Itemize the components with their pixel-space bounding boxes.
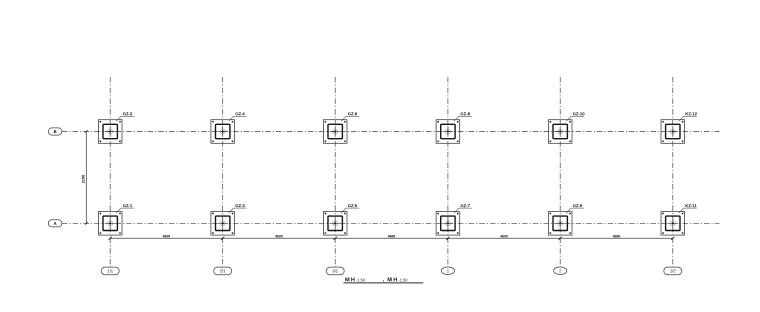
vertical dimension line between rows A and B <box>85 130 88 225</box>
svg-text:KZ-12: KZ-12 <box>685 111 697 116</box>
column footing GZ-2 (row B col 1) at grid intersection <box>98 120 122 144</box>
svg-text:1: 1 <box>447 268 450 273</box>
column footing KZ-12 (row B col 6) at grid intersection <box>661 120 685 144</box>
grid line column 3 (vertical centerline) <box>334 77 336 267</box>
label GZ-1 with leader for footing GZ-1 (row A col 1) <box>116 203 134 213</box>
svg-text:4500: 4500 <box>388 234 396 238</box>
horizontal dimension line under row A <box>109 237 675 240</box>
grid bubble column 1 <box>441 267 454 275</box>
column footing KZ-11 (row A col 6) at grid intersection <box>661 212 685 236</box>
column footing GZ-7 (row A col 4) at grid intersection <box>436 212 460 236</box>
column footing GZ-4 (row B col 2) at grid intersection <box>211 120 235 144</box>
svg-text:2: 2 <box>559 268 562 273</box>
grid line column 4 (vertical centerline) <box>447 77 449 267</box>
label GZ-9 with leader for footing GZ-9 (row A col 5) <box>566 203 584 213</box>
svg-text:3/1: 3/1 <box>332 268 338 273</box>
column footing GZ-3 (row A col 2) at grid intersection <box>211 212 235 236</box>
grid line column 5 (vertical centerline) <box>559 77 561 267</box>
column footing GZ-9 (row A col 5) at grid intersection <box>548 212 572 236</box>
grid bubble column 3/1 <box>326 267 344 275</box>
svg-text:1/1: 1/1 <box>107 268 113 273</box>
svg-text:GZ-3: GZ-3 <box>235 203 245 208</box>
grid bubble column 2 <box>554 267 567 275</box>
grid line row B (horizontal centerline) <box>62 131 720 133</box>
svg-text:1/2: 1/2 <box>670 268 676 273</box>
svg-text:GZ-10: GZ-10 <box>573 111 586 116</box>
svg-text:4500: 4500 <box>163 234 171 238</box>
separator dot <box>383 280 384 281</box>
svg-text:2/1: 2/1 <box>220 268 226 273</box>
grid line column 1 (vertical centerline) <box>109 77 111 267</box>
grid bubble column 2/1 <box>214 267 232 275</box>
svg-text:KZ-11: KZ-11 <box>685 203 697 208</box>
svg-text:2100: 2100 <box>82 175 86 183</box>
label GZ-4 with leader for footing GZ-4 (row B col 2) <box>229 111 247 121</box>
label GZ-5 with leader for footing GZ-5 (row A col 3) <box>341 203 359 213</box>
svg-text:GZ-1: GZ-1 <box>123 203 133 208</box>
label KZ-11 with leader for footing KZ-11 (row A col 6) <box>679 203 698 213</box>
svg-text:GZ-7: GZ-7 <box>460 203 470 208</box>
svg-text:GZ-4: GZ-4 <box>235 111 245 116</box>
label GZ-8 with leader for footing GZ-8 (row B col 4) <box>454 111 472 121</box>
column footing GZ-10 (row B col 5) at grid intersection <box>548 120 572 144</box>
grid bubble row B <box>48 128 62 135</box>
grid bubble column 1/2 <box>664 267 682 275</box>
label GZ-7 with leader for footing GZ-7 (row A col 4) <box>454 203 472 213</box>
svg-text:4500: 4500 <box>500 234 508 238</box>
grid line column 6 (vertical centerline) <box>672 77 674 267</box>
svg-text:B: B <box>54 129 57 134</box>
svg-text:GZ-8: GZ-8 <box>460 111 470 116</box>
svg-text:GZ-5: GZ-5 <box>348 203 358 208</box>
grid line column 2 (vertical centerline) <box>222 77 224 267</box>
svg-text:GZ-9: GZ-9 <box>573 203 583 208</box>
column footing GZ-1 (row A col 1) at grid intersection <box>98 212 122 236</box>
svg-text:4500: 4500 <box>613 234 621 238</box>
svg-text:4500: 4500 <box>275 234 283 238</box>
grid bubble row A <box>48 220 62 227</box>
column footing GZ-5 (row A col 3) at grid intersection <box>323 212 347 236</box>
column footing GZ-6 (row B col 3) at grid intersection <box>323 120 347 144</box>
grid line row A (horizontal centerline) <box>62 222 720 224</box>
svg-text:GZ-2: GZ-2 <box>123 111 133 116</box>
svg-text:A: A <box>54 221 57 226</box>
label GZ-6 with leader for footing GZ-6 (row B col 3) <box>341 111 359 121</box>
label GZ-3 with leader for footing GZ-3 (row A col 2) <box>229 203 247 213</box>
grid bubble column 1/1 <box>101 267 119 275</box>
label KZ-12 with leader for footing KZ-12 (row B col 6) <box>679 111 698 121</box>
label GZ-2 with leader for footing GZ-2 (row B col 1) <box>116 111 134 121</box>
label GZ-10 with leader for footing GZ-10 (row B col 5) <box>566 111 585 121</box>
svg-text:GZ-6: GZ-6 <box>348 111 358 116</box>
column footing GZ-8 (row B col 4) at grid intersection <box>436 120 460 144</box>
title underline <box>344 282 424 284</box>
